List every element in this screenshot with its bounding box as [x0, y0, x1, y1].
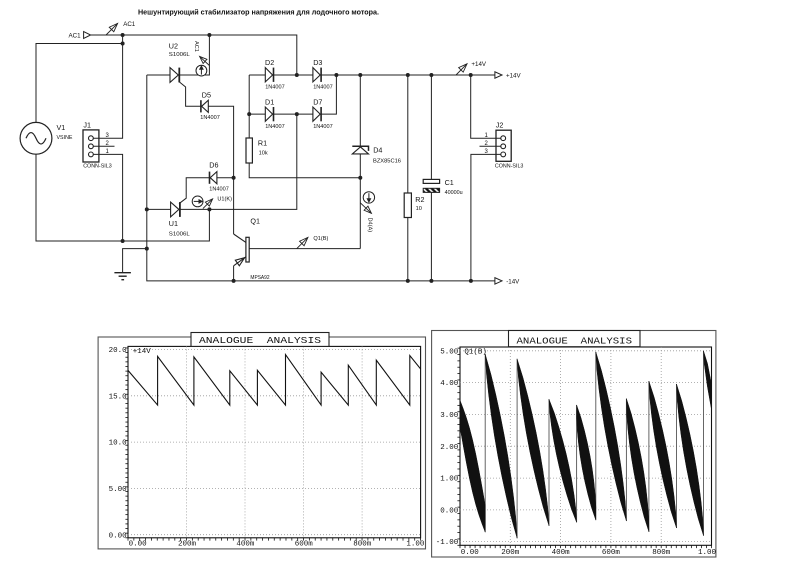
svg-text:CONN-SIL3: CONN-SIL3: [495, 163, 524, 169]
wire: [249, 113, 265, 115]
svg-text:0.00: 0.00: [129, 540, 148, 548]
svg-text:10k: 10k: [259, 150, 268, 156]
wire: [179, 35, 209, 75]
svg-text:D7: D7: [313, 97, 322, 106]
svg-text:200m: 200m: [178, 540, 197, 548]
svg-text:VSINE: VSINE: [57, 135, 73, 141]
svg-text:600m: 600m: [602, 549, 621, 557]
node junction: [232, 279, 236, 283]
wire: [248, 75, 250, 138]
svg-text:U1: U1: [169, 219, 178, 228]
svg-text:V1: V1: [57, 123, 66, 132]
svg-text:Q1: Q1: [250, 217, 260, 226]
svg-text:0.00: 0.00: [461, 549, 480, 557]
svg-text:1N4007: 1N4007: [200, 115, 220, 121]
node junction: [429, 279, 433, 283]
svg-text:1N4007: 1N4007: [265, 85, 285, 91]
svg-text:200m: 200m: [501, 549, 520, 557]
wire: [297, 74, 313, 76]
svg-text:U2: U2: [169, 41, 178, 50]
wire: [93, 154, 122, 241]
waveform Q1(B) jump lines: [484, 354, 486, 532]
node junction: [429, 73, 433, 77]
svg-text:+14V: +14V: [506, 73, 521, 80]
diode D7: [313, 107, 320, 121]
svg-text:D5: D5: [202, 90, 211, 99]
analysis chart right plot area: [460, 347, 712, 545]
svg-text:D6: D6: [209, 161, 218, 170]
wire: [180, 114, 297, 209]
wire: [217, 177, 234, 179]
node junction: [145, 247, 149, 251]
wire: [407, 218, 409, 281]
node junction: [247, 112, 251, 116]
wire: [321, 75, 336, 114]
wire: [471, 154, 501, 281]
probe +14V: [456, 64, 467, 75]
svg-text:R1: R1: [258, 138, 267, 147]
svg-text:AC1: AC1: [123, 21, 136, 28]
svg-text:5.00: 5.00: [109, 486, 128, 494]
node junction: [145, 207, 149, 211]
resistor R2: [404, 193, 411, 218]
node junction: [207, 207, 211, 211]
wire: [249, 74, 265, 76]
node junction: [469, 279, 473, 283]
wire: [122, 35, 124, 44]
terminal -14V: [495, 278, 502, 284]
svg-text:800m: 800m: [652, 549, 671, 557]
node AC1: [121, 33, 125, 37]
waveform +14V: [128, 355, 421, 405]
diode D3: [313, 68, 320, 82]
node junction: [295, 112, 299, 116]
svg-text:ANALOGUE ANALYSIS: ANALOGUE ANALYSIS: [199, 336, 321, 346]
svg-text:BZX85C16: BZX85C16: [373, 159, 401, 165]
wire: [430, 75, 432, 179]
svg-text:5.00: 5.00: [440, 348, 459, 356]
wire: [147, 74, 170, 76]
wire: [249, 248, 360, 250]
svg-text:400m: 400m: [236, 540, 255, 548]
wire: [179, 178, 210, 204]
svg-text:0.00: 0.00: [109, 532, 128, 540]
waveform Q1(B) bands: [460, 400, 485, 532]
svg-text:Q1(B): Q1(B): [464, 348, 487, 356]
wire: [36, 44, 123, 123]
svg-text:+14V: +14V: [471, 61, 486, 68]
wire: [208, 106, 233, 234]
analysis chart right frame: [432, 331, 716, 558]
wire: [93, 44, 122, 139]
svg-text:R2: R2: [415, 195, 424, 204]
svg-text:1.00: 1.00: [406, 540, 425, 548]
connector J2: [496, 130, 511, 161]
transistor Q1: [246, 237, 249, 262]
probe AC1 current: [196, 65, 207, 76]
svg-text:400m: 400m: [552, 549, 571, 557]
probe Q1(B): [297, 237, 308, 248]
node junction: [358, 176, 362, 180]
node junction: [295, 73, 299, 77]
svg-text:3.00: 3.00: [440, 412, 459, 420]
wire: [36, 154, 209, 241]
node junction: [207, 33, 211, 37]
connector J1: [83, 130, 99, 162]
wire: [91, 35, 297, 75]
svg-text:D4: D4: [373, 145, 382, 154]
svg-text:1N4007: 1N4007: [313, 85, 333, 91]
svg-text:15.0: 15.0: [109, 393, 128, 401]
resistor R1: [246, 138, 252, 163]
svg-text:2.00: 2.00: [440, 444, 459, 452]
capacitor C1: [423, 179, 439, 183]
wire: [147, 75, 495, 281]
svg-text:Q1(B): Q1(B): [313, 236, 328, 242]
svg-text:D3: D3: [313, 58, 322, 67]
svg-text:40000u: 40000u: [445, 190, 463, 196]
svg-text:0.00: 0.00: [440, 508, 459, 516]
wire: [179, 82, 201, 106]
wire: [93, 145, 114, 147]
node junction: [358, 73, 362, 77]
svg-text:C1: C1: [445, 178, 454, 187]
node junction: [121, 42, 125, 46]
svg-text:+14V: +14V: [133, 348, 152, 356]
analysis chart right title box: [509, 331, 641, 347]
wire: [471, 75, 501, 138]
svg-text:4.00: 4.00: [440, 380, 459, 388]
analysis chart left frame: [98, 337, 425, 549]
svg-text:10.0: 10.0: [109, 440, 128, 448]
node junction: [334, 73, 338, 77]
svg-text:AC1: AC1: [69, 33, 82, 40]
analysis chart left plot area: [128, 346, 421, 537]
wire: [321, 74, 495, 76]
svg-text:CONN-SIL3: CONN-SIL3: [83, 164, 112, 170]
svg-text:D4(A): D4(A): [367, 218, 373, 233]
terminal +14V: [495, 72, 502, 78]
svg-text:-14V: -14V: [506, 279, 520, 286]
svg-text:S1006L: S1006L: [169, 52, 190, 58]
node junction: [469, 73, 473, 77]
wire: [274, 74, 297, 76]
svg-text:1.00: 1.00: [440, 476, 459, 484]
wire: [297, 113, 313, 115]
wire: [274, 113, 297, 115]
svg-text:U1(K): U1(K): [217, 196, 232, 202]
diode D6: [210, 172, 217, 184]
diode D2: [265, 68, 272, 82]
svg-text:ANALOGUE ANALYSIS: ANALOGUE ANALYSIS: [517, 337, 633, 347]
svg-text:S1006L: S1006L: [169, 231, 190, 237]
svg-text:D2: D2: [265, 58, 274, 67]
node junction: [121, 239, 125, 243]
svg-text:800m: 800m: [353, 540, 372, 548]
node junction: [406, 73, 410, 77]
svg-text:10: 10: [416, 206, 422, 212]
svg-text:D1: D1: [265, 97, 274, 106]
svg-text:1.00: 1.00: [698, 549, 717, 557]
svg-text:J1: J1: [83, 120, 91, 129]
svg-text:Нешунтирующий стабилизатор нап: Нешунтирующий стабилизатор напряжения дл…: [138, 8, 379, 17]
svg-text:J2: J2: [496, 121, 504, 130]
thyristor U1: [171, 202, 179, 217]
wire: [407, 75, 409, 193]
ground: [123, 249, 147, 273]
terminal AC1: [84, 32, 91, 39]
svg-text:AC1: AC1: [193, 41, 199, 52]
probe AC1: [106, 23, 118, 35]
wire: [480, 145, 501, 147]
wire: [249, 163, 360, 178]
diode D1: [265, 107, 272, 121]
probe D4(A): [363, 192, 374, 203]
svg-text:1N4007: 1N4007: [265, 124, 285, 130]
node junction: [232, 176, 236, 180]
zener D4: [359, 75, 361, 146]
probe U1(K): [192, 196, 203, 207]
analysis chart left title box: [191, 333, 329, 347]
diode D5: [202, 100, 209, 112]
wire: [430, 192, 432, 281]
wire: [147, 208, 171, 210]
svg-text:600m: 600m: [295, 540, 314, 548]
node junction: [406, 279, 410, 283]
svg-text:MPSA92: MPSA92: [250, 275, 269, 281]
svg-text:1N4007: 1N4007: [209, 187, 229, 193]
svg-text:-1.00: -1.00: [436, 539, 459, 547]
svg-text:20.0: 20.0: [109, 347, 128, 355]
svg-text:1N4007: 1N4007: [313, 124, 333, 130]
source V1: [20, 122, 52, 154]
thyristor U2: [170, 68, 178, 83]
